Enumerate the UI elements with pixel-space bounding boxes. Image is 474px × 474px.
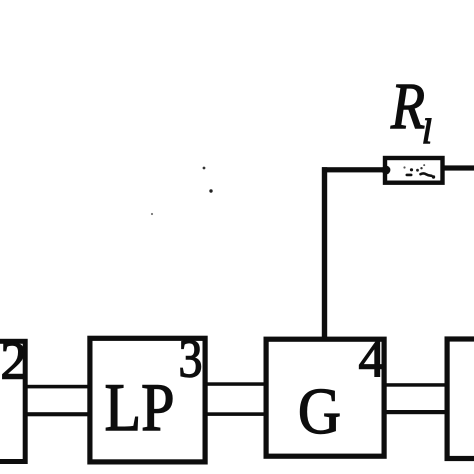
wire from resistor right to image edge <box>443 165 474 170</box>
stray speck B <box>209 189 212 192</box>
block 3 LP (low-pass filter) <box>90 338 205 462</box>
wire from resistor left going left <box>322 167 386 172</box>
svg-text:G: G <box>298 375 341 448</box>
wire double-line LP to G upper <box>204 382 267 386</box>
wire double-line G to right box lower <box>384 410 448 414</box>
svg-text:4: 4 <box>359 330 386 388</box>
svg-text:R: R <box>390 70 425 143</box>
resistor Rl <box>385 158 443 183</box>
stray speck C <box>151 213 153 215</box>
junction dot at resistor left terminal <box>382 166 391 175</box>
wire double-line LP to G lower <box>204 412 267 416</box>
block 2 (partial at left edge) <box>0 341 25 461</box>
block 4 G (generator) <box>266 339 384 456</box>
wire double-line box2 to LP lower <box>25 412 92 416</box>
svg-text:2: 2 <box>0 330 27 390</box>
label Rl <box>390 70 432 151</box>
stray speck A <box>203 167 206 170</box>
svg-text:l: l <box>422 112 432 151</box>
svg-text:LP: LP <box>105 369 175 445</box>
svg-text:3: 3 <box>179 328 203 388</box>
block 5 (partial at right edge) <box>447 339 474 459</box>
wire double-line G to right box upper <box>384 383 448 387</box>
wire vertical down to G box <box>322 167 327 341</box>
wire double-line box2 to LP upper <box>25 385 92 389</box>
